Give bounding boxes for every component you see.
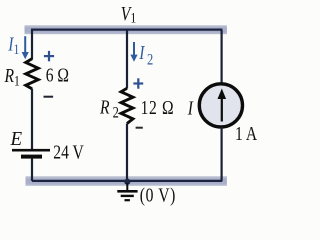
current arrow I1 [22, 36, 29, 59]
battery E [12, 149, 50, 159]
polarity - of R2 [136, 127, 143, 129]
junction node dot [124, 179, 130, 185]
ground [117, 183, 137, 201]
svg-text:I2: I2 [138, 41, 153, 69]
svg-text:V1: V1 [121, 2, 136, 26]
current source I [199, 84, 242, 127]
svg-text:1 A: 1 A [235, 122, 257, 144]
svg-text:12 Ω: 12 Ω [141, 96, 175, 118]
wire: middle branch upper (V1 to R2) [126, 30, 128, 89]
svg-text:(0 V): (0 V) [140, 184, 176, 207]
wire: left branch lower (E to bottom rail) [31, 158, 33, 181]
svg-text:I: I [187, 97, 194, 119]
wire: left branch middle (R1 to E) [31, 89, 33, 150]
bottom rail bus bar (ground node 0V) [26, 176, 227, 186]
current arrow I2 [130, 42, 137, 62]
wire: right branch lower (source to bottom rail) [221, 127, 223, 181]
svg-text:R2: R2 [99, 96, 119, 122]
polarity - of R1 [44, 96, 54, 98]
wire: bottom rail conductor 0V [32, 180, 222, 182]
svg-text:R1: R1 [4, 64, 20, 89]
resistor R2 [121, 88, 133, 123]
svg-text:I1: I1 [7, 33, 19, 58]
wire: middle branch lower (R2 to ground node) [126, 124, 128, 181]
svg-text:24 V: 24 V [53, 141, 84, 163]
svg-text:E: E [10, 129, 23, 151]
svg-text:6 Ω: 6 Ω [46, 63, 69, 85]
polarity + of R1 [44, 51, 54, 61]
wire: left branch upper (V1 to R1) [31, 30, 33, 60]
top rail bus bar (node V1) [25, 25, 227, 34]
wire: right branch upper (V1 to source) [221, 30, 223, 84]
wire: top rail conductor V1 [31, 29, 222, 31]
polarity + of R2 [133, 78, 143, 88]
resistor R1 [26, 59, 39, 89]
